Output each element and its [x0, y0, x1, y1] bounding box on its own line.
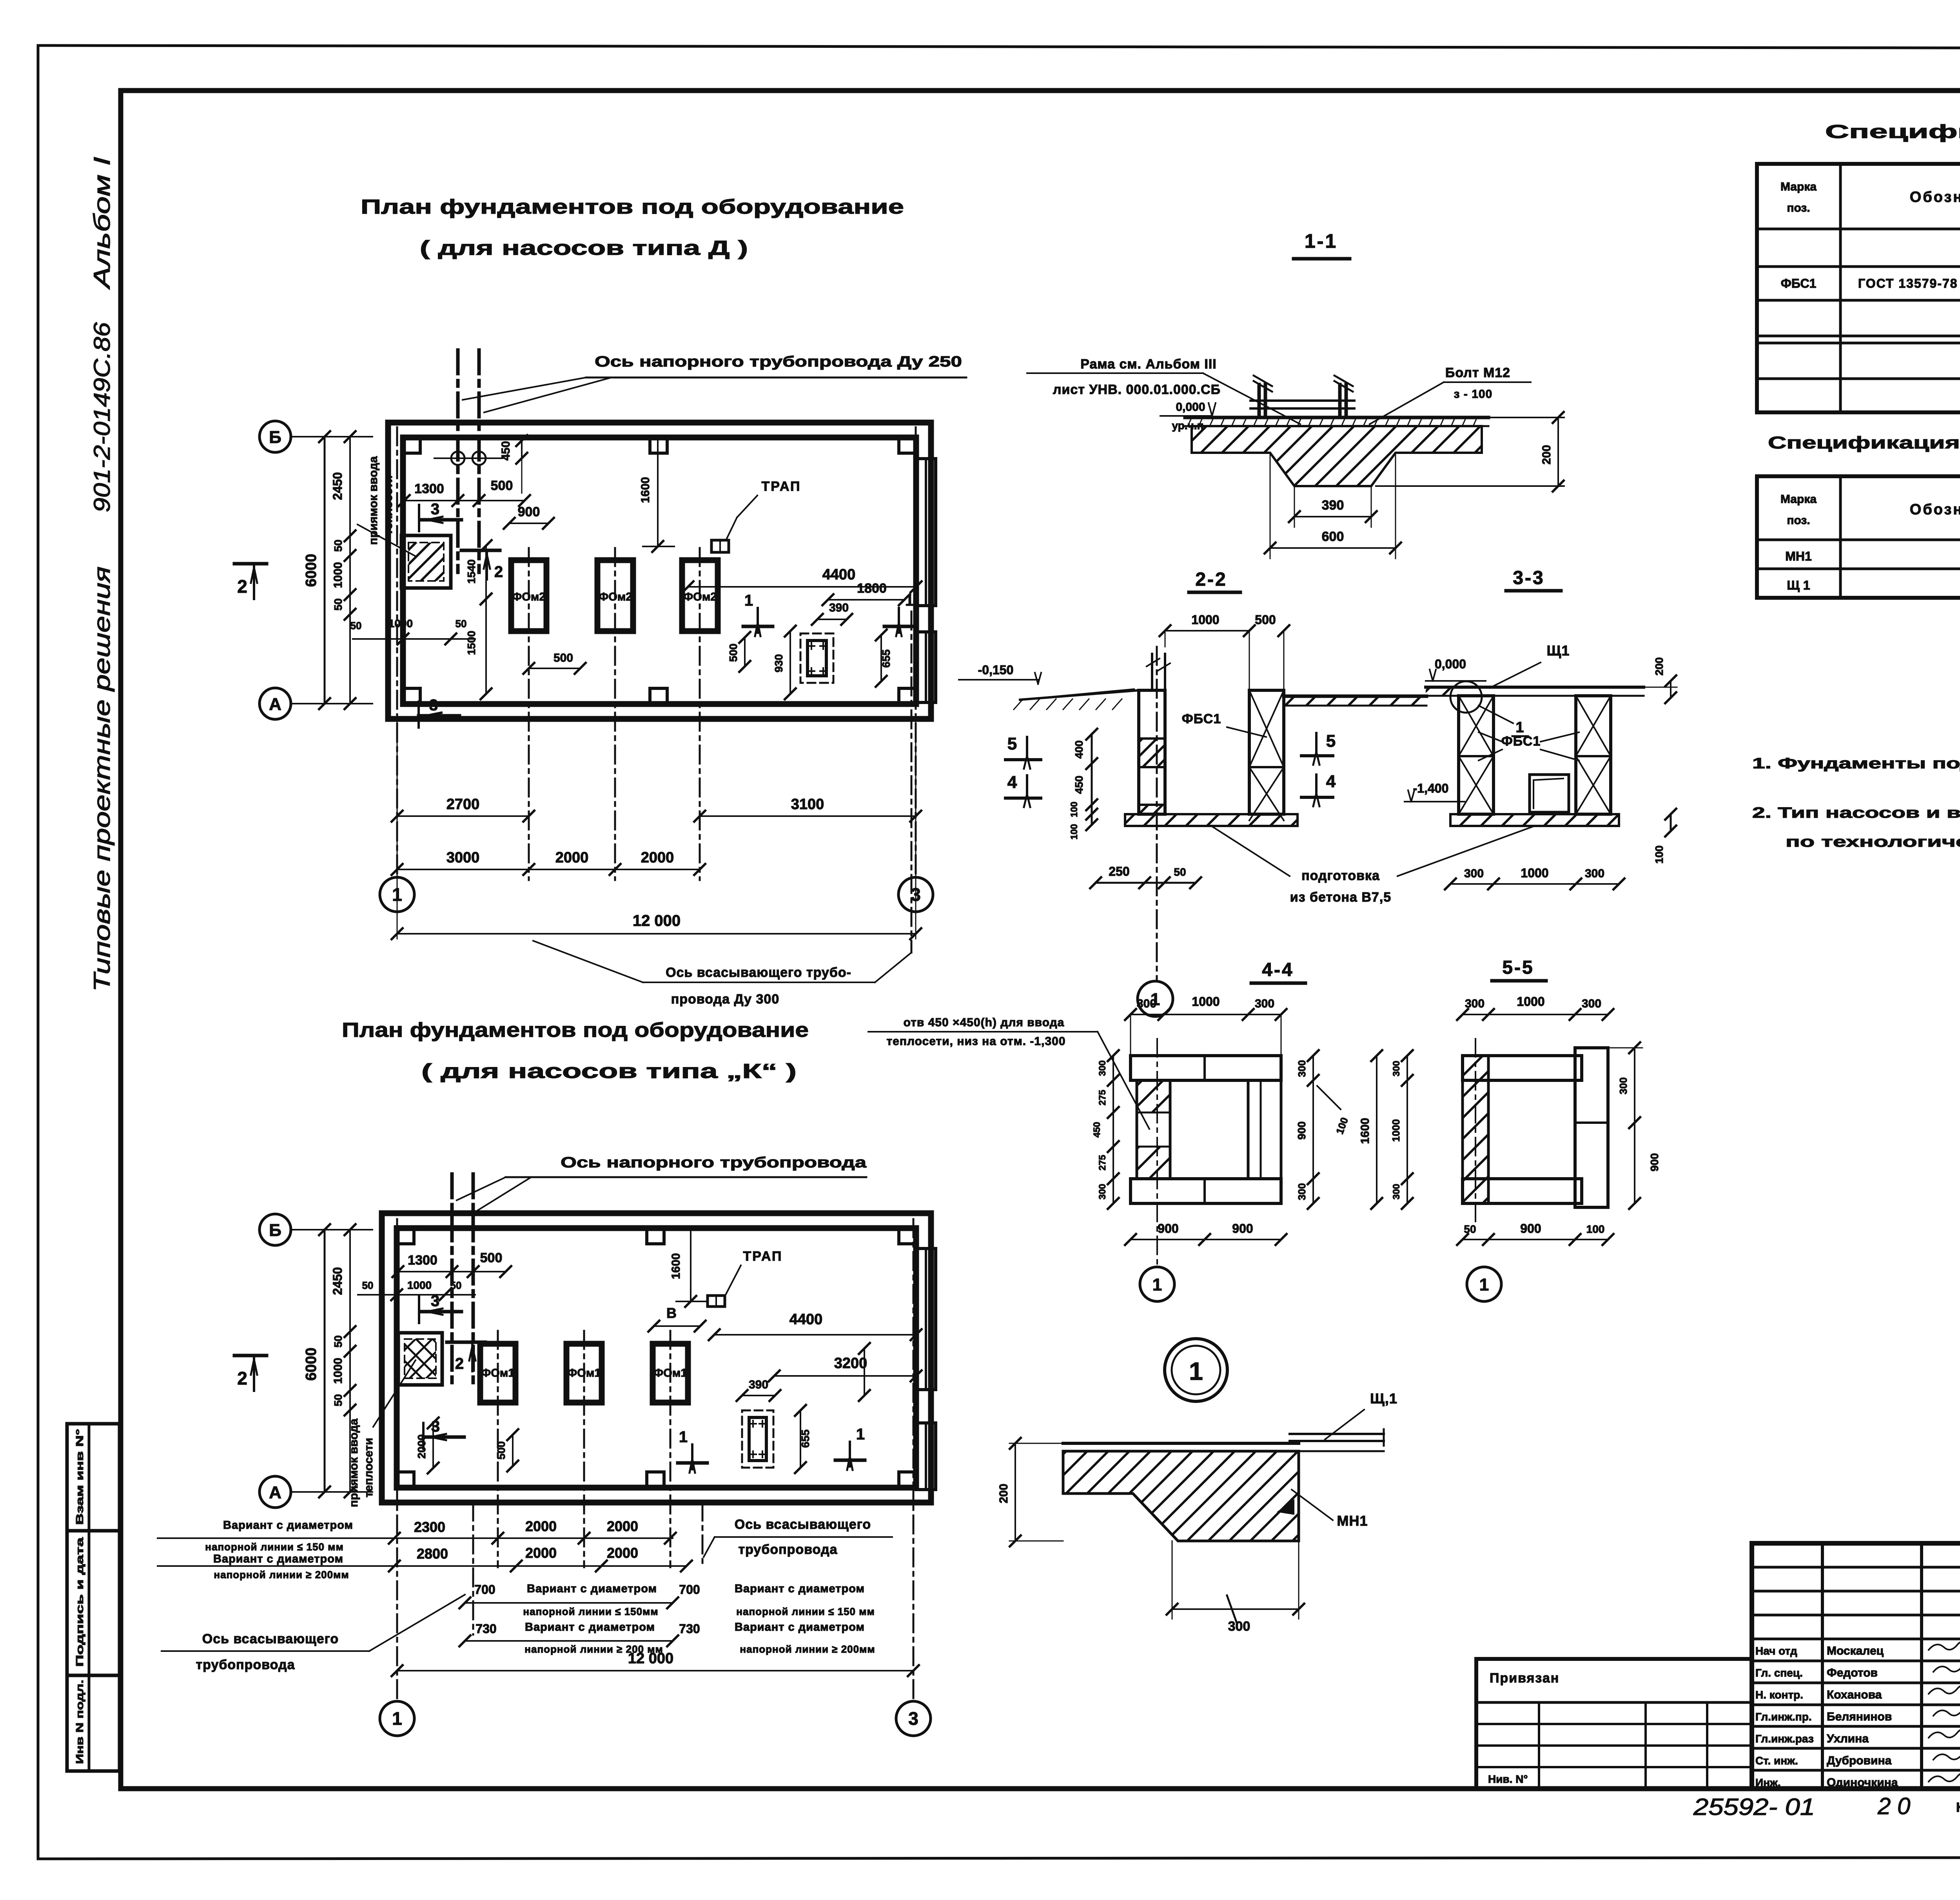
svg-text:300: 300	[1617, 1077, 1629, 1094]
section 1-1 slab top lines	[1185, 416, 1488, 419]
plan2 dim 4400	[714, 1334, 916, 1336]
svg-text:Б: Б	[269, 1221, 281, 1240]
plan2 axis circle Б	[260, 1214, 291, 1245]
svg-text:напорной линии ≤ 150 мм: напорной линии ≤ 150 мм	[736, 1606, 875, 1617]
svg-text:12 000: 12 000	[628, 1650, 673, 1667]
plan2 trap square	[708, 1296, 725, 1307]
svg-text:Дубровина: Дубровина	[1827, 1754, 1892, 1767]
svg-text:200: 200	[1653, 657, 1665, 676]
svg-text:50: 50	[332, 539, 344, 552]
svg-text:Гл. спец.: Гл. спец.	[1755, 1667, 1803, 1679]
svg-text:300: 300	[1137, 997, 1156, 1010]
section 5-5 left column hatched	[1463, 1056, 1488, 1203]
section 4-4 left dim chain	[1112, 1056, 1114, 1203]
svg-text:Обозначение: Обозначение	[1910, 189, 1960, 205]
svg-text:Одиночкина: Одиночкина	[1827, 1776, 1898, 1789]
svg-text:3100: 3100	[791, 796, 824, 813]
svg-text:500: 500	[727, 644, 739, 662]
svg-text:Ось всасывающего: Ось всасывающего	[735, 1517, 871, 1532]
svg-text:5: 5	[1007, 734, 1017, 753]
svg-text:450: 450	[1092, 1122, 1102, 1138]
section 3-3 opening window	[1530, 775, 1569, 812]
section 1-1 dim 200	[1557, 417, 1559, 486]
section 5-5 right column	[1575, 1048, 1608, 1207]
svg-text:напорной линии ≤ 150 мм: напорной линии ≤ 150 мм	[205, 1541, 343, 1553]
svg-text:730: 730	[679, 1622, 700, 1636]
svg-text:План фундаментов под оборуд: План фундаментов под оборудование	[342, 1019, 809, 1042]
plan1 section mark 3 top	[418, 505, 420, 531]
plan2 axis 3 line	[913, 1219, 915, 1701]
svg-text:отв 450 ×450(h) для ввода: отв 450 ×450(h) для ввода	[904, 1016, 1065, 1029]
svg-text:МН1: МН1	[1785, 549, 1812, 563]
node 1 slab hatched	[1063, 1451, 1299, 1541]
svg-text:ур.ч.п: ур.ч.п	[1172, 419, 1203, 432]
svg-text:План фундаментов под оборуд: План фундаментов под оборудование	[361, 196, 904, 218]
svg-text:390: 390	[749, 1378, 768, 1391]
plan2 section mark 1 left	[691, 1445, 693, 1469]
svg-text:ФБС1: ФБС1	[1781, 276, 1817, 290]
section 4-4 top band	[1131, 1056, 1281, 1080]
svg-text:300: 300	[1296, 1060, 1308, 1077]
plan1 dim 1600	[657, 439, 659, 546]
svg-text:930: 930	[773, 654, 785, 673]
node 1 detail circle	[1165, 1339, 1227, 1401]
svg-text:900: 900	[518, 504, 540, 519]
svg-text:Марка: Марка	[1780, 180, 1817, 193]
svg-text:1: 1	[1479, 1275, 1489, 1294]
plan2 suction axis right	[702, 1503, 704, 1564]
section 1-1 hatched slab	[1192, 426, 1482, 486]
section 2-2 axis circle 1	[1138, 981, 1173, 1016]
svg-text:В: В	[666, 1305, 677, 1321]
svg-text:Ухлина: Ухлина	[1827, 1732, 1869, 1745]
plan1 pump pit dashed	[800, 633, 833, 683]
svg-text:300: 300	[1465, 997, 1485, 1010]
svg-text:300: 300	[1097, 1184, 1108, 1200]
section 2-2 ground line	[1020, 690, 1139, 700]
section 2-2 floor slab right	[1284, 695, 1426, 698]
svg-text:напорной линии ≥ 200мм: напорной линии ≥ 200мм	[740, 1643, 875, 1655]
svg-text:2700: 2700	[446, 796, 480, 813]
section 5-5 left dim chain	[1406, 1056, 1408, 1203]
plan2 section mark 3 top	[418, 1297, 420, 1323]
svg-text:1: 1	[392, 1708, 402, 1729]
plan2 pump pit dashed	[742, 1410, 773, 1468]
plan1 pipe axis lines	[456, 350, 460, 572]
plan1 foundation block ФОм2 #2	[597, 560, 633, 631]
svg-text:Нач отд: Нач отд	[1755, 1645, 1797, 1657]
node 1 dim 300	[1172, 1541, 1173, 1619]
svg-text:300: 300	[1255, 997, 1274, 1010]
svg-text:2000: 2000	[555, 849, 589, 866]
plan2 dim 390	[742, 1395, 775, 1396]
svg-text:3: 3	[431, 501, 439, 518]
svg-text:Спецификация металлических и: Спецификация металлических изделий к схе…	[1768, 433, 1960, 452]
svg-text:600: 600	[1322, 529, 1344, 544]
plan2 dim 655	[800, 1410, 801, 1468]
plan2 dim 500 below block1	[512, 1435, 514, 1466]
svg-text:400: 400	[1073, 740, 1085, 759]
svg-text:2: 2	[237, 1368, 247, 1388]
node 1 slab top lines	[1063, 1442, 1299, 1445]
section 1-1 frame plate	[1250, 399, 1354, 402]
svg-text:500: 500	[480, 1250, 503, 1265]
svg-text:Типовые проектные решения: Типовые проектные решения	[89, 566, 115, 992]
svg-text:Щ 1: Щ 1	[1787, 578, 1810, 592]
svg-text:Вариант с диаметром: Вариант с диаметром	[735, 1621, 865, 1633]
plan2 pit hatched square	[398, 1333, 442, 1385]
svg-text:4: 4	[1326, 772, 1336, 791]
svg-text:2000: 2000	[641, 849, 674, 866]
svg-text:Ось всасывающего трубо-: Ось всасывающего трубо-	[666, 965, 851, 980]
plan1 axis circle Б	[260, 421, 291, 452]
node 1 dim 200	[1014, 1443, 1016, 1541]
svg-text:Щ,1: Щ,1	[1370, 1390, 1397, 1406]
section 5-5 bottom dims	[1463, 1239, 1608, 1240]
section 2-2 dims top	[1165, 630, 1249, 632]
svg-text:2300: 2300	[414, 1519, 445, 1535]
plan2 foundation block ФОм1 #1	[480, 1344, 515, 1403]
svg-text:4400: 4400	[789, 1311, 823, 1328]
svg-text:901-2-0149С.86: 901-2-0149С.86	[89, 322, 115, 512]
svg-text:А: А	[269, 695, 281, 714]
svg-text:300: 300	[1296, 1183, 1308, 1200]
svg-text:1-1: 1-1	[1305, 230, 1338, 252]
svg-text:Н. контр.: Н. контр.	[1755, 1689, 1803, 1701]
svg-text:1300: 1300	[408, 1253, 437, 1268]
svg-text:из бетона В7,5: из бетона В7,5	[1290, 890, 1391, 905]
svg-text:250: 250	[1109, 864, 1129, 878]
spec table 2 grid	[1757, 476, 1960, 598]
plan2 dim 3200	[774, 1375, 916, 1377]
svg-text:5-5: 5-5	[1502, 957, 1534, 978]
svg-text:2: 2	[494, 563, 503, 581]
svg-text:3: 3	[429, 697, 438, 714]
plan2 axis circle 1	[380, 1701, 414, 1736]
plan2 dim 1600	[690, 1230, 691, 1301]
svg-text:2: 2	[237, 576, 247, 597]
svg-text:трубопровода: трубопровода	[196, 1657, 295, 1672]
plan1 section mark 2 outside	[234, 562, 267, 566]
svg-text:Ось всасывающего: Ось всасывающего	[202, 1631, 339, 1646]
svg-text:( для насосов типа Д ): ( для насосов типа Д )	[420, 237, 748, 260]
svg-text:Болт М12: Болт М12	[1445, 365, 1510, 380]
svg-text:поз.: поз.	[1787, 514, 1810, 527]
svg-text:1: 1	[905, 592, 914, 609]
plan1 dim 930	[789, 631, 791, 694]
section 4-4 right column	[1248, 1080, 1281, 1179]
plan1 building walls	[388, 423, 931, 719]
plan1 axis 1 line	[396, 427, 398, 877]
svg-text:Подпись и дата: Подпись и дата	[74, 1537, 85, 1667]
plan2 left dim chain	[349, 1230, 351, 1492]
plan1 section mark 1 left	[757, 608, 759, 633]
svg-text:Марка: Марка	[1780, 493, 1817, 506]
svg-text:теплосети: теплосети	[362, 1438, 375, 1497]
plan1 axis circle А	[260, 688, 291, 719]
svg-text:6000: 6000	[303, 1348, 319, 1381]
plan2 building walls	[382, 1213, 931, 1503]
svg-text:1: 1	[679, 1428, 688, 1446]
svg-text:100: 100	[1069, 824, 1080, 840]
svg-text:ТРАП: ТРАП	[761, 479, 801, 494]
section 2-2 pit bottom slab	[1125, 814, 1298, 826]
plan1 louver window right top	[916, 459, 936, 606]
svg-text:25592- 01: 25592- 01	[1693, 1794, 1815, 1820]
svg-text:приямок ввода: приямок ввода	[367, 456, 380, 545]
svg-text:1: 1	[744, 592, 753, 609]
svg-text:2-2: 2-2	[1195, 569, 1227, 590]
svg-text:6000: 6000	[303, 554, 319, 587]
svg-text:500: 500	[1255, 613, 1276, 627]
svg-text:50: 50	[456, 618, 467, 630]
svg-text:1000: 1000	[332, 1358, 345, 1384]
section 3-3 bottom slab	[1450, 814, 1619, 826]
svg-text:4400: 4400	[822, 566, 856, 583]
plan2 section mark 2 inner	[447, 1341, 485, 1344]
svg-text:3: 3	[431, 1418, 440, 1435]
svg-text:655: 655	[799, 1430, 811, 1448]
svg-text:700: 700	[474, 1582, 495, 1597]
plan1 dim 4400	[688, 586, 916, 588]
svg-text:1: 1	[1515, 719, 1524, 736]
section 3-3 right dim 200	[1670, 681, 1671, 698]
svg-text:Ось напорного трубопровода: Ось напорного трубопровода	[561, 1154, 867, 1171]
section 2-2 left dim chain	[1091, 734, 1093, 825]
svg-text:Копировал: Копировал	[1956, 1800, 1960, 1815]
plan2 dim 6000	[324, 1230, 326, 1492]
plan2 suction axis left	[472, 1503, 474, 1635]
section 4-4 right dim chain	[1312, 1056, 1314, 1203]
plan1 axis circle 1	[380, 877, 414, 912]
plan1 section mark 3 bottom	[417, 702, 420, 728]
plan1 section mark 1 right	[898, 608, 900, 633]
plan2 louver window right bottom	[916, 1423, 936, 1490]
svg-text:Нив. N°: Нив. N°	[1488, 1773, 1528, 1785]
svg-text:Рама см. Альбом III: Рама см. Альбом III	[1080, 357, 1216, 372]
section 3-3 right dim 100	[1670, 814, 1672, 831]
svg-text:300: 300	[1391, 1184, 1402, 1200]
plan1 foundation block ФОм2 #1	[511, 560, 546, 631]
svg-text:300: 300	[1391, 1061, 1402, 1076]
svg-text:500: 500	[491, 478, 513, 493]
section 5-5 dim 1600	[1376, 1056, 1377, 1203]
svg-text:провода Ду 300: провода Ду 300	[671, 992, 780, 1007]
svg-text:2: 2	[455, 1355, 464, 1372]
svg-text:Ось напорного трубопровода: Ось напорного трубопровода Ду 250	[595, 354, 962, 370]
plan1 left dim chain	[349, 437, 351, 704]
svg-text:50: 50	[332, 1335, 344, 1347]
svg-text:1600: 1600	[1359, 1118, 1372, 1144]
plan2 variant dim row1	[158, 1537, 673, 1539]
plan2 section mark 1 right	[849, 1442, 851, 1466]
svg-text:12 000: 12 000	[633, 912, 681, 929]
plan1 section mark 2 inner	[461, 549, 500, 552]
svg-text:1000: 1000	[1517, 994, 1544, 1009]
section 2-2 axis line	[1156, 647, 1158, 980]
svg-text:Привязан: Привязан	[1490, 1671, 1559, 1686]
svg-text:0,000: 0,000	[1176, 401, 1205, 414]
svg-text:900: 900	[1232, 1221, 1253, 1236]
svg-text:2000: 2000	[525, 1518, 557, 1534]
svg-text:Спецификация к схеме приямк: Спецификация к схеме приямка	[1825, 122, 1960, 142]
svg-text:300: 300	[1097, 1060, 1108, 1076]
section 3-3 cover plate	[1426, 686, 1644, 689]
title block grid	[1752, 1543, 1960, 1789]
svg-text:Вариант с диаметром: Вариант с диаметром	[527, 1582, 657, 1595]
svg-text:1000: 1000	[1191, 613, 1219, 627]
svg-text:2. Тип насосов и вариант: 2. Тип насосов и вариант напорных линий …	[1752, 805, 1960, 821]
svg-text:4-4: 4-4	[1262, 960, 1294, 980]
svg-text:2000: 2000	[525, 1545, 557, 1561]
section 1-1 dim 390	[1294, 486, 1295, 527]
svg-text:1000: 1000	[332, 562, 345, 588]
plan2 variant dim row2	[158, 1565, 686, 1567]
section 1-1 dim 600	[1270, 453, 1271, 559]
svg-text:0,000: 0,000	[1435, 657, 1466, 671]
plan1 dim 500 right	[744, 637, 746, 666]
svg-text:700: 700	[679, 1582, 700, 1597]
svg-text:390: 390	[1322, 498, 1344, 513]
plan1 pipe valve circles	[451, 452, 465, 465]
plan1 dim 1300 500	[404, 500, 524, 501]
svg-text:лист УНВ. 000.01.000.СБ: лист УНВ. 000.01.000.СБ	[1053, 382, 1221, 397]
svg-text:100: 100	[1069, 802, 1080, 817]
svg-text:900: 900	[1648, 1153, 1661, 1172]
svg-text:450: 450	[499, 441, 512, 461]
svg-text:1500: 1500	[465, 631, 477, 655]
svg-text:100: 100	[1653, 846, 1665, 864]
section 2-2 wall break top	[1151, 654, 1153, 690]
svg-text:1000: 1000	[1192, 994, 1220, 1009]
svg-text:4: 4	[1007, 773, 1017, 792]
svg-text:100: 100	[1586, 1223, 1605, 1235]
plan1 dim 12000	[397, 933, 916, 935]
plan1 foundation block ФОм2 #3	[682, 560, 718, 631]
svg-text:300: 300	[1228, 1619, 1250, 1634]
svg-text:2 0: 2 0	[1877, 1793, 1910, 1819]
plan1 axis circle 3	[898, 877, 933, 912]
section 4-4 axis	[1156, 1039, 1158, 1266]
svg-text:подготовка: подготовка	[1301, 868, 1380, 883]
section 3-3 right pier blocks	[1576, 696, 1611, 814]
svg-text:200: 200	[1540, 445, 1553, 465]
svg-text:1600: 1600	[670, 1253, 682, 1279]
svg-text:1000: 1000	[1521, 866, 1548, 880]
sidebar stamp boxes	[67, 1424, 120, 1771]
svg-text:Взам инв N°: Взам инв N°	[74, 1429, 85, 1525]
section 5-5 axis circle 1	[1467, 1267, 1501, 1301]
plan2 axis circle 3	[896, 1701, 931, 1736]
svg-text:900: 900	[1520, 1221, 1541, 1236]
svg-text:2450: 2450	[330, 1267, 345, 1295]
svg-text:Вариант с диаметром: Вариант с диаметром	[735, 1582, 865, 1595]
svg-text:1000: 1000	[388, 617, 413, 630]
plan2 pipe axis lines	[450, 1174, 454, 1388]
svg-text:50: 50	[350, 620, 362, 632]
svg-text:Москалец: Москалец	[1827, 1644, 1884, 1657]
svg-text:1000: 1000	[407, 1279, 432, 1291]
svg-text:ГОСТ 13579-78: ГОСТ 13579-78	[1858, 276, 1958, 290]
svg-text:напорной линии ≥ 200мм: напорной линии ≥ 200мм	[214, 1569, 349, 1581]
section 2-2 right pier blocks	[1249, 690, 1284, 814]
svg-text:Альбом I: Альбом I	[89, 157, 115, 290]
svg-text:Белянинов: Белянинов	[1827, 1710, 1892, 1723]
svg-text:3: 3	[431, 1292, 439, 1310]
svg-text:1: 1	[1152, 1275, 1162, 1294]
svg-text:1. Фундаменты под оборудова: 1. Фундаменты под оборудование ФОм1; ФОм…	[1752, 755, 1960, 772]
svg-text:275: 275	[1097, 1155, 1108, 1170]
svg-text:2000: 2000	[607, 1518, 638, 1534]
svg-text:1600: 1600	[639, 477, 652, 503]
svg-text:А: А	[269, 1483, 281, 1502]
svg-text:1: 1	[1189, 1357, 1203, 1385]
section 4-4 bottom band	[1131, 1179, 1281, 1203]
plan1 dim 50 1000 50 row	[353, 638, 475, 640]
plan1 dim 900	[509, 523, 548, 524]
svg-text:теплосети, низ на отм. -1,300: теплосети, низ на отм. -1,300	[886, 1035, 1065, 1048]
svg-text:390: 390	[829, 601, 849, 614]
plan1 bottom dims row2	[397, 869, 700, 870]
svg-text:1000: 1000	[1390, 1119, 1402, 1142]
node 1 cover plate	[1290, 1433, 1384, 1435]
plan2 axis 1 line	[396, 1219, 398, 1701]
plan2 dim L1	[864, 1348, 865, 1396]
svg-text:730: 730	[475, 1622, 496, 1636]
plan2 axis circle А	[260, 1476, 291, 1508]
plan1 louver window right bottom	[916, 632, 936, 702]
plan2 foundation block ФОм1 #2	[566, 1344, 602, 1403]
svg-text:2800: 2800	[417, 1546, 448, 1562]
svg-text:900: 900	[1296, 1121, 1308, 1140]
plan2 block axes	[497, 1331, 499, 1567]
svg-text:1800: 1800	[857, 581, 887, 596]
section 4-4 bottom dims	[1131, 1239, 1281, 1240]
svg-text:напорной линии ≤ 150мм: напорной линии ≤ 150мм	[523, 1606, 658, 1617]
svg-text:Б: Б	[269, 428, 281, 447]
svg-text:МН1: МН1	[1337, 1513, 1368, 1529]
section 1-1 frame posts	[1258, 385, 1261, 417]
svg-text:50: 50	[332, 598, 344, 610]
svg-text:3-3: 3-3	[1513, 568, 1544, 588]
section 4-4 top dims	[1131, 1014, 1281, 1015]
svg-text:Обозначение: Обозначение	[1910, 501, 1960, 518]
plan1 axis 3 line	[915, 427, 917, 877]
svg-text:Коханова: Коханова	[1827, 1688, 1882, 1701]
svg-text:ТРАП: ТРАП	[743, 1249, 782, 1264]
plan1 right pit axis	[911, 612, 913, 953]
plan1 dim 390	[817, 619, 847, 620]
section 5-5 top band	[1463, 1056, 1582, 1080]
svg-text:Федотов: Федотов	[1827, 1666, 1878, 1679]
svg-text:300: 300	[1585, 867, 1604, 880]
spec table 1 grid	[1757, 164, 1960, 412]
plan2 section mark 2 outside	[234, 1354, 267, 1357]
section 5-5 bottom band	[1463, 1179, 1582, 1203]
svg-text:50: 50	[450, 1279, 462, 1291]
plan2 foundation block ФОм1 #3	[653, 1344, 688, 1403]
svg-text:поз.: поз.	[1787, 201, 1810, 214]
svg-text:50: 50	[1464, 1223, 1476, 1235]
plan2 dim 2000 left	[432, 1423, 434, 1468]
svg-text:50: 50	[1174, 866, 1186, 878]
svg-text:275: 275	[1097, 1090, 1108, 1105]
plan1 dim 1540	[485, 546, 487, 599]
plan1 dim 500 below block1	[529, 668, 580, 669]
section 2-2 left pier	[1139, 690, 1165, 814]
svg-text:по технологическим чертежам: по технологическим чертежам при привязке…	[1786, 834, 1960, 850]
svg-text:5: 5	[1326, 731, 1336, 751]
